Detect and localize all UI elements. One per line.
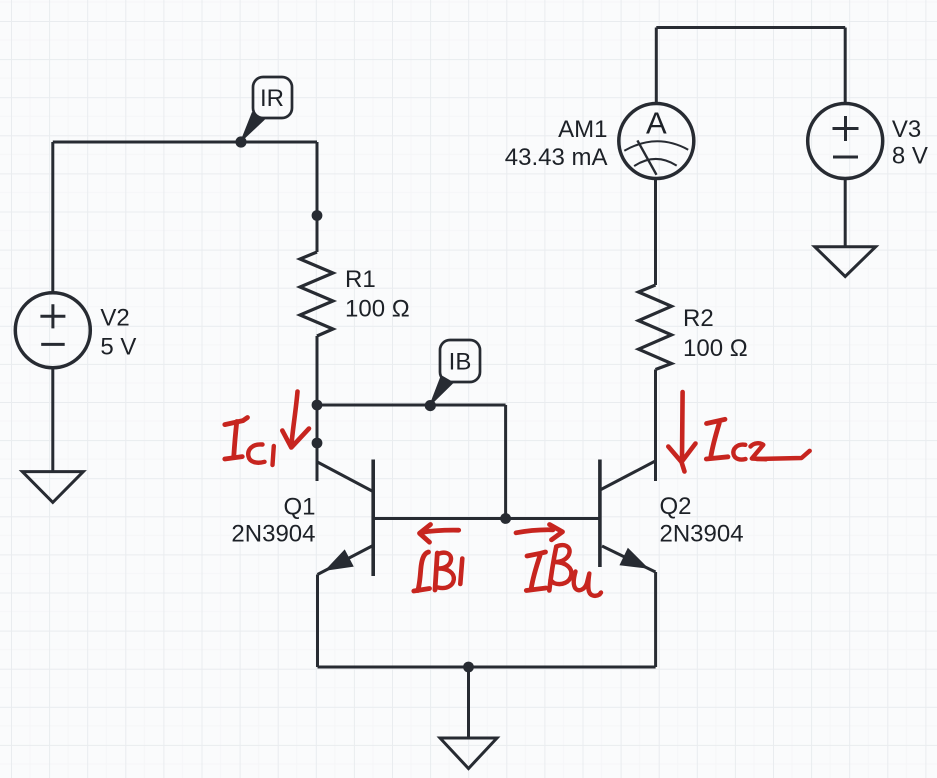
transistor Q1 emitter arrow — [326, 550, 353, 570]
svg-text:Q2: Q2 — [660, 493, 692, 520]
wire AM1 to R2 — [654, 179, 657, 285]
svg-text:V2: V2 — [100, 305, 129, 332]
wire Q2 emitter vertical — [654, 572, 657, 667]
callout IB box — [440, 340, 480, 382]
red arrow IB1 (left arrow) — [421, 530, 459, 532]
node dot bottom ground junction — [463, 662, 474, 673]
svg-text:5 V: 5 V — [100, 333, 136, 360]
svg-text:AM1: AM1 — [558, 116, 607, 143]
red text IC1 — [225, 418, 248, 425]
ground (V2) — [22, 472, 83, 503]
svg-text:2N3904: 2N3904 — [231, 521, 315, 548]
transistor Q2 collector diagonal — [600, 461, 655, 490]
resistor R1 — [300, 252, 333, 336]
red arrow IC1 (down arrow) — [291, 392, 297, 447]
red text IC2 — [707, 419, 726, 423]
red text IB1 — [418, 552, 429, 591]
ground (bottom center) — [440, 738, 497, 769]
wire R2 bottom to Q2 collector — [654, 370, 657, 482]
svg-text:V3: V3 — [892, 116, 921, 143]
transistor Q2 emitter arrow — [620, 549, 647, 569]
svg-text:Q1: Q1 — [283, 494, 315, 521]
red annotation group — [225, 392, 810, 596]
node dot R1 top — [312, 210, 323, 221]
svg-text:R1: R1 — [345, 266, 376, 293]
wire R1 bottom to IB node — [316, 336, 319, 405]
transistor Q1 collector diagonal — [317, 462, 373, 492]
svg-text:A: A — [646, 105, 667, 140]
node dot IB junction — [312, 400, 323, 411]
V3 minus sign — [833, 156, 858, 159]
wire Q1 collector stub — [316, 405, 319, 481]
wire bottom ground stem — [467, 667, 470, 738]
AM1 meter upper arc — [624, 141, 688, 151]
wire V3 bottom to ground — [844, 179, 847, 247]
voltage source V3 circle — [808, 104, 883, 179]
callout IB tail — [429, 375, 455, 408]
ground (V3) — [815, 247, 876, 277]
callout IB anchor dot — [425, 400, 436, 411]
voltage source V2 circle — [15, 293, 90, 368]
red arrow IC2 (down arrow) — [680, 392, 685, 459]
svg-text:43.43 mA: 43.43 mA — [505, 144, 608, 171]
V2 plus sign — [40, 304, 65, 328]
wire bottom horizontal — [318, 666, 656, 669]
svg-text:2N3904: 2N3904 — [660, 521, 744, 548]
wire top-right horizontal — [656, 26, 845, 29]
ammeter AM1 circle — [619, 104, 694, 179]
wire IB vertical to base — [504, 405, 507, 519]
svg-text:100 Ω: 100 Ω — [683, 335, 748, 362]
callout IR box — [253, 77, 292, 118]
AM1 needle — [637, 140, 656, 174]
node dot Q1 collector — [312, 438, 323, 449]
AM1 meter lower arc — [634, 159, 677, 166]
red arrow IB2 (right arrow) — [516, 530, 553, 533]
wire R1 top vertical — [316, 142, 319, 252]
red text IB2 — [527, 552, 546, 556]
wire V2 bottom to ground — [51, 368, 54, 472]
svg-text:100 Ω: 100 Ω — [345, 296, 410, 323]
wire base Q1-Q2 — [373, 517, 600, 520]
wire top-left horizontal — [53, 141, 317, 144]
wire V3 top — [844, 28, 847, 104]
transistor Q1 bar — [371, 460, 375, 577]
wire AM1 top — [655, 28, 658, 104]
transistor Q2 emitter diagonal — [602, 546, 656, 572]
wire left vertical to V2 — [51, 142, 54, 293]
wire IB horizontal — [317, 404, 506, 407]
V3 plus sign — [833, 116, 859, 141]
V2 minus sign — [41, 343, 64, 346]
svg-text:R2: R2 — [683, 305, 714, 332]
node dot base junction — [500, 513, 511, 524]
svg-text:8 V: 8 V — [892, 142, 928, 169]
callout IR anchor dot — [235, 136, 246, 147]
wire Q1 emitter vertical — [316, 575, 319, 668]
callout IR tail — [240, 112, 266, 144]
transistor Q1 emitter diagonal — [318, 546, 374, 575]
svg-text:IR: IR — [260, 85, 284, 112]
transistor Q2 bar — [598, 460, 602, 568]
svg-text:IB: IB — [449, 349, 472, 376]
resistor R2 — [639, 285, 672, 370]
